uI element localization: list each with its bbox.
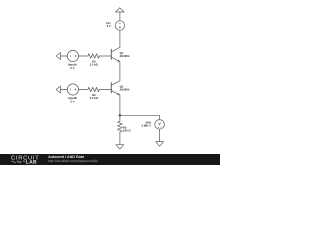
transistor Q1 2N3904	[111, 47, 120, 62]
input flag B	[56, 86, 60, 93]
ground under voltmeter	[156, 142, 164, 147]
voltage source InputB circle	[67, 84, 78, 95]
wire voltmeter to ground	[159, 129, 161, 141]
svg-text:330 Ω: 330 Ω	[123, 129, 131, 133]
voltage source InputA circle	[67, 50, 78, 61]
svg-text:2.881 V: 2.881 V	[142, 124, 152, 128]
svg-text:5 V: 5 V	[70, 66, 74, 70]
wire Q1 emitter to Q2 collector	[119, 62, 121, 81]
resistor R4 zigzag	[88, 54, 100, 58]
svg-text:2N3904: 2N3904	[120, 88, 130, 92]
wire R2 to ground	[119, 132, 121, 145]
svg-text:3.3 kΩ: 3.3 kΩ	[90, 62, 99, 66]
voltage source V1 Vcc circle	[115, 21, 124, 30]
svg-text:9 V: 9 V	[107, 24, 111, 28]
resistor R6 zigzag	[88, 87, 100, 91]
ground under R2	[116, 145, 124, 150]
node output junction	[119, 114, 122, 117]
svg-text:http://circuitlab.com/c6qxkcac: http://circuitlab.com/c6qxkcacc9k3z	[48, 159, 98, 163]
wire R6 to Q2 base	[99, 89, 111, 91]
wire Q2 emitter to output node	[119, 95, 121, 115]
resistor R2 zigzag	[118, 121, 123, 132]
voltmeter VM1	[155, 120, 165, 130]
wire sourceA to R4	[78, 55, 88, 57]
wire flag to Vcc source	[119, 12, 121, 21]
svg-text:5 V: 5 V	[70, 99, 74, 103]
wire sourceB to R6	[78, 89, 88, 91]
svg-text:+ −: + −	[158, 126, 162, 129]
wire node to R2	[119, 115, 121, 121]
wire flagB to sourceB	[61, 89, 68, 91]
footer bar	[0, 154, 220, 165]
svg-text:3.3 kΩ: 3.3 kΩ	[90, 96, 99, 100]
svg-text:2N3904: 2N3904	[120, 54, 130, 58]
input flag A	[56, 53, 60, 60]
transistor Q2 2N3904	[111, 81, 120, 96]
wire Vcc source to Q1 collector	[119, 30, 121, 47]
wire R4 to Q1 base	[99, 55, 111, 57]
wire flagA to sourceA	[61, 55, 68, 57]
svg-text:LAB: LAB	[26, 159, 37, 165]
wire node to voltmeter	[120, 115, 160, 119]
power flag V+ (Vcc net)	[116, 8, 125, 12]
